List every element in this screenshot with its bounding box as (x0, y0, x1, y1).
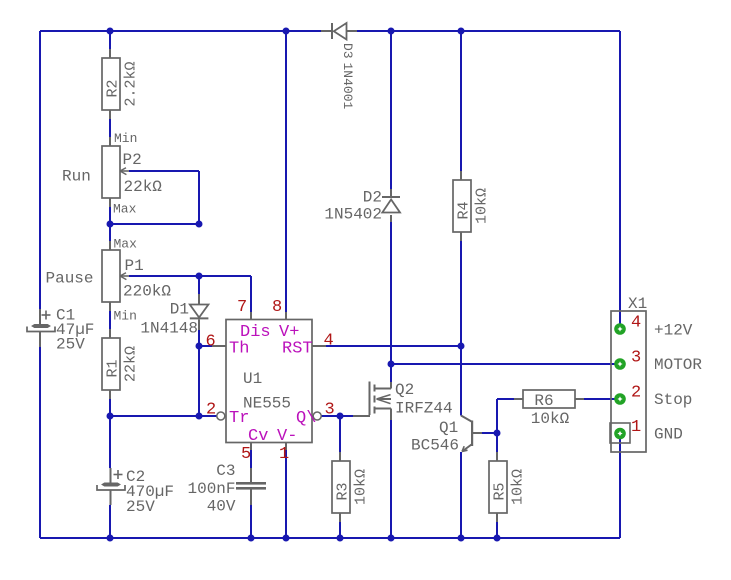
svg-text:Pause: Pause (46, 269, 94, 287)
svg-text:R2: R2 (105, 79, 122, 97)
svg-text:40V: 40V (207, 498, 236, 516)
svg-text:1N4148: 1N4148 (140, 320, 198, 338)
svg-text:GND: GND (654, 426, 683, 444)
svg-text:BC546: BC546 (411, 437, 459, 455)
svg-text:P1: P1 (125, 257, 144, 275)
svg-text:7: 7 (237, 298, 247, 317)
svg-text:10kΩ: 10kΩ (531, 410, 570, 428)
svg-text:R1: R1 (105, 359, 122, 377)
svg-text:Run: Run (62, 168, 91, 186)
svg-text:R6: R6 (534, 392, 553, 410)
svg-text:2: 2 (206, 401, 216, 420)
svg-text:Stop: Stop (654, 391, 692, 409)
svg-text:22kΩ: 22kΩ (123, 346, 140, 382)
svg-text:25V: 25V (56, 336, 85, 354)
svg-text:22kΩ: 22kΩ (124, 178, 163, 196)
svg-text:Cv: Cv (248, 427, 268, 446)
svg-text:R3: R3 (335, 482, 352, 500)
svg-text:2: 2 (631, 384, 641, 403)
svg-text:Min: Min (114, 131, 137, 146)
svg-text:25V: 25V (126, 498, 155, 516)
svg-text:R5: R5 (492, 482, 509, 500)
svg-text:D3: D3 (340, 43, 355, 59)
svg-text:Q2: Q2 (395, 381, 414, 399)
svg-text:V-: V- (277, 427, 297, 446)
svg-text:10kΩ: 10kΩ (510, 469, 527, 505)
svg-text:Min: Min (114, 309, 137, 324)
svg-text:1: 1 (279, 445, 289, 464)
svg-text:5: 5 (241, 445, 251, 464)
svg-text:1: 1 (631, 418, 641, 437)
svg-text:2.2kΩ: 2.2kΩ (123, 61, 140, 106)
svg-text:10kΩ: 10kΩ (474, 188, 491, 224)
svg-text:8: 8 (272, 298, 282, 317)
svg-text:IRFZ44: IRFZ44 (395, 400, 453, 418)
svg-text:RST: RST (282, 340, 313, 359)
svg-text:Max: Max (114, 236, 138, 251)
svg-text:X1: X1 (628, 295, 647, 313)
svg-text:4: 4 (631, 314, 641, 333)
svg-text:6: 6 (206, 333, 216, 352)
svg-text:220kΩ: 220kΩ (123, 283, 171, 301)
svg-text:NE555: NE555 (243, 395, 291, 413)
svg-text:D2: D2 (363, 189, 382, 207)
svg-text:Q\: Q\ (296, 409, 316, 428)
svg-text:Th: Th (229, 340, 249, 359)
svg-text:3: 3 (631, 349, 641, 368)
svg-text:MOTOR: MOTOR (654, 356, 702, 374)
svg-text:4: 4 (324, 332, 334, 351)
svg-text:100nF: 100nF (187, 480, 235, 498)
svg-text:+12V: +12V (654, 322, 693, 340)
svg-text:Max: Max (113, 202, 137, 217)
svg-text:R4: R4 (456, 201, 473, 219)
svg-text:1N5402: 1N5402 (324, 206, 382, 224)
svg-text:C3: C3 (216, 462, 235, 480)
svg-text:U1: U1 (243, 370, 262, 388)
svg-text:3: 3 (325, 401, 335, 420)
svg-text:Q1: Q1 (439, 419, 458, 437)
svg-text:P2: P2 (123, 151, 142, 169)
svg-text:1N4001: 1N4001 (340, 63, 355, 110)
svg-text:10kΩ: 10kΩ (353, 469, 370, 505)
svg-text:D1: D1 (170, 301, 189, 319)
